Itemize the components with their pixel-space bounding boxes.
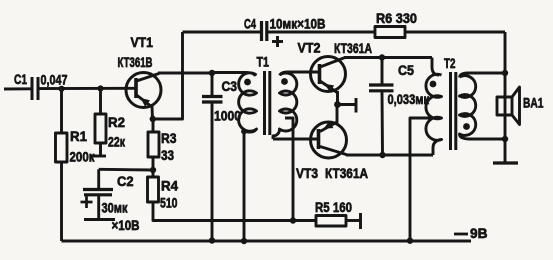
node speaker top (502, 70, 508, 76)
svg-text:22к: 22к (108, 134, 126, 150)
node C3 top (209, 70, 215, 76)
svg-text:КТ361А: КТ361А (334, 40, 372, 56)
svg-text:33: 33 (161, 147, 174, 163)
svg-text:×10В: ×10В (112, 217, 140, 233)
wire right drop to speaker (504, 32, 507, 163)
bottom rail (62, 240, 472, 243)
svg-text:R6 330: R6 330 (376, 10, 417, 26)
wire R2 stub terminal (99, 143, 102, 156)
svg-text:VT2: VT2 (298, 40, 321, 56)
T2 secondary phase dot (463, 123, 470, 130)
capacitor C5 (381, 58, 384, 85)
wire R1 to rail (60, 162, 63, 241)
resistor R3 (148, 132, 159, 157)
svg-text:9В: 9В (470, 225, 488, 241)
T2 primary tap (410, 118, 442, 241)
wire emitter to top rail (153, 32, 183, 119)
svg-text:10мк×10В: 10мк×10В (270, 16, 326, 32)
label -9V (454, 233, 468, 236)
svg-text:VT1: VT1 (131, 34, 154, 50)
top rail mid (267, 31, 375, 34)
svg-text:BA1: BA1 (523, 95, 544, 111)
wire C1 to VT1 base (40, 87, 137, 90)
svg-text:T2: T2 (444, 55, 456, 71)
node C3 bottom (209, 237, 215, 243)
node VT1 emitter (150, 116, 156, 122)
svg-text:C2: C2 (117, 173, 134, 189)
wire T1 primary to rail (243, 132, 246, 242)
transistor VT2 (311, 57, 346, 92)
svg-text:0,047: 0,047 (41, 72, 68, 88)
T1 secondary tap (285, 118, 293, 221)
node tap to bias line (290, 217, 296, 223)
svg-text:1000: 1000 (214, 108, 241, 124)
T1 secondary winding (273, 72, 320, 139)
T2 secondary winding (460, 73, 506, 139)
svg-text:C4: C4 (244, 16, 256, 32)
svg-text:R5 160: R5 160 (315, 199, 352, 215)
resistor R1 (56, 133, 68, 162)
wire C2 to node (99, 168, 153, 172)
capacitor C4 (260, 21, 263, 41)
capacitor C1 (31, 77, 34, 100)
speaker BA1 (497, 97, 512, 115)
svg-text:VT3: VT3 (296, 165, 318, 181)
capacitor C3 (211, 73, 214, 96)
svg-text:30мк: 30мк (102, 200, 129, 216)
svg-text:510: 510 (160, 195, 178, 211)
svg-text:C3: C3 (222, 78, 238, 94)
resistor R5 (316, 216, 346, 227)
svg-text:R1: R1 (70, 128, 87, 144)
T1 core (263, 71, 266, 135)
wire T1 secondary bottom to VT3 base (273, 138, 319, 141)
svg-text:R2: R2 (108, 114, 125, 130)
wire VT3 collector (346, 154, 433, 157)
node R3 R4 (150, 167, 156, 173)
node T1 primary bottom (241, 129, 247, 135)
svg-text:R4: R4 (161, 178, 178, 194)
node T1 primary rail (241, 238, 247, 244)
T2 core (449, 72, 452, 150)
T1 secondary phase dot (281, 78, 288, 85)
node C5 bottom (379, 152, 385, 158)
T2 primary phase dot (430, 81, 437, 88)
wire R4 to bias line (153, 202, 316, 221)
node R2 top (97, 85, 103, 91)
svg-text:0,033мк: 0,033мк (388, 91, 430, 107)
T1 primary winding (213, 73, 257, 133)
top rail right (405, 31, 505, 34)
wire midpoint stub terminal (338, 103, 357, 106)
svg-text:КТ361В: КТ361В (118, 54, 153, 70)
ground (493, 161, 518, 164)
resistor R4 (148, 177, 159, 202)
svg-text:R3: R3 (161, 130, 177, 146)
T1 primary phase dot (244, 79, 251, 86)
transistor VT1 (126, 73, 161, 108)
resistor R2 (95, 114, 106, 143)
node midpoint emitters (334, 101, 341, 108)
wire VT1 collector (158, 72, 213, 75)
wire R5 stub terminal (346, 219, 360, 222)
wire VT2 collector (344, 56, 432, 59)
capacitor C2 (97, 169, 100, 189)
T2 primary winding (426, 58, 442, 156)
svg-text:КТ361А: КТ361А (325, 165, 368, 181)
resistor R6 (375, 27, 405, 38)
wire input (4, 87, 31, 90)
node speaker bottom (502, 136, 508, 142)
node tap rail (407, 238, 413, 244)
svg-text:C1: C1 (14, 71, 27, 87)
transistor VT3 (311, 122, 347, 158)
wire R2 drop (99, 89, 102, 115)
svg-text:C5: C5 (398, 62, 414, 78)
top rail left (183, 31, 262, 34)
node R1 top (58, 86, 64, 92)
wire R3 lead (152, 119, 155, 132)
svg-text:T1: T1 (257, 54, 270, 70)
wire R1 drop (60, 89, 63, 133)
node C5 top (379, 54, 385, 60)
